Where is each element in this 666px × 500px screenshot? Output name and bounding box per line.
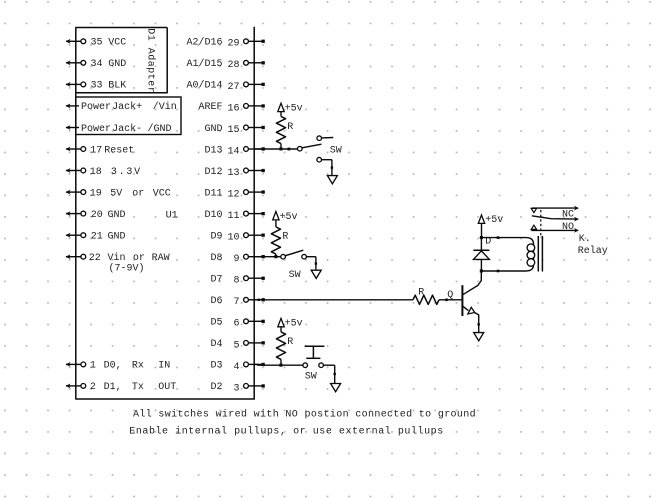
svg-text:A2/D16: A2/D16	[186, 37, 222, 49]
wire D6 pin to resistor R4	[254, 299, 413, 301]
pin 19	[66, 188, 171, 199]
svg-text:21: 21	[91, 232, 103, 243]
svg-text:SW: SW	[305, 371, 317, 382]
svg-text:20: 20	[91, 210, 103, 221]
Relay label	[578, 245, 608, 257]
relay contact NO terminal	[531, 228, 579, 233]
+5v supply at R3	[278, 318, 303, 329]
pin 33	[66, 81, 127, 92]
transistor Q base bar	[461, 285, 463, 316]
junction node diode top/coil top	[480, 236, 483, 239]
svg-text:or: or	[133, 253, 145, 264]
pin 4 (D3 4)	[210, 361, 264, 373]
pin Power Jack+ /Vin	[66, 101, 177, 113]
svg-text:29: 29	[227, 39, 239, 50]
svg-text:D10: D10	[204, 210, 222, 221]
Power Jack box	[76, 97, 181, 135]
pin Power Jack-/GND	[66, 123, 172, 135]
D1 Adapter header box	[76, 28, 167, 93]
svg-text:D2: D2	[210, 382, 222, 393]
svg-text:+5v: +5v	[285, 319, 303, 330]
svg-text:NC: NC	[562, 209, 574, 220]
switch SW1 common pole	[298, 144, 322, 151]
junction node collector/diode/coil bottom	[480, 269, 483, 272]
svg-text:27: 27	[227, 82, 239, 93]
svg-text:A1/D15: A1/D15	[186, 58, 222, 70]
switch SW1 NC contact to ground wire	[317, 157, 333, 175]
pin 12 (D11 12)	[204, 188, 264, 200]
svg-text:16: 16	[227, 103, 239, 114]
svg-text:Power: Power	[81, 124, 111, 135]
svg-text:2: 2	[90, 382, 96, 393]
svg-text:Rx: Rx	[132, 361, 144, 372]
junction node R3/D3 wire	[279, 364, 282, 367]
wire SW3 to ground	[323, 365, 336, 383]
pin 2	[66, 382, 177, 393]
ground below SW1	[327, 176, 337, 184]
svg-text:5: 5	[233, 340, 239, 351]
pin 1	[66, 361, 171, 372]
svg-text:Jack-: Jack-	[112, 123, 142, 135]
resistor R1	[276, 112, 285, 149]
wire D3 pin to switch SW3	[254, 363, 303, 366]
svg-text:3: 3	[233, 383, 239, 394]
pin 34	[66, 59, 127, 70]
svg-text:Vin: Vin	[108, 252, 126, 264]
pin 8 (D7 8)	[210, 275, 264, 287]
svg-text:Power: Power	[81, 102, 111, 113]
svg-text:D4: D4	[210, 339, 222, 350]
svg-text:6: 6	[233, 319, 239, 330]
switch SW1 NO contact	[317, 136, 333, 141]
pushbutton SW3 actuator	[305, 346, 325, 358]
NO label	[562, 222, 574, 233]
IC U1 chip body outline	[76, 27, 254, 399]
ground below Q emitter	[474, 333, 484, 341]
pin 13 (D12 13)	[204, 167, 264, 179]
wire D8 pin to switch SW2	[254, 256, 281, 258]
pin 18	[66, 167, 142, 178]
svg-text:VCC: VCC	[153, 188, 171, 199]
relay armature pivot	[531, 208, 536, 212]
svg-text:4: 4	[233, 362, 239, 373]
svg-text:GND: GND	[108, 232, 126, 243]
svg-text:Q: Q	[447, 290, 453, 301]
svg-text:17: 17	[90, 145, 102, 156]
svg-text:K.: K.	[579, 234, 591, 245]
transistor Q emitter	[463, 306, 480, 332]
svg-text:10: 10	[227, 233, 239, 244]
svg-text:35: 35	[91, 38, 103, 49]
svg-text:D11: D11	[204, 188, 222, 199]
svg-text:8: 8	[233, 276, 239, 287]
svg-text:GND: GND	[108, 59, 126, 70]
svg-text:12: 12	[227, 190, 239, 201]
svg-text:D0,: D0,	[104, 361, 122, 372]
resistor R2	[271, 220, 280, 257]
R4 value label	[418, 288, 424, 299]
svg-text:18: 18	[90, 167, 102, 178]
relay armature (common)	[532, 216, 579, 222]
svg-text:(7-9V): (7-9V)	[109, 263, 145, 275]
pin 28 (A1/D15 28)	[186, 58, 264, 71]
wire R4 to transistor base	[439, 299, 462, 302]
pin 11 (D10 11)	[204, 210, 264, 222]
svg-text:NO: NO	[562, 222, 574, 233]
U1 reference designator	[166, 211, 178, 222]
R2 value label	[282, 232, 288, 243]
pin 3 (D2 3)	[210, 382, 264, 394]
D1 Adapter vertical title	[145, 28, 157, 93]
Q reference label	[447, 290, 453, 301]
svg-text:Relay: Relay	[578, 245, 608, 257]
svg-text:19: 19	[90, 188, 102, 199]
pin 35	[66, 38, 127, 49]
pin 27 (A0/D14 27)	[186, 80, 264, 93]
svg-text:D12: D12	[204, 167, 222, 178]
svg-text:5V: 5V	[110, 188, 122, 199]
svg-text:R: R	[282, 232, 288, 243]
svg-text:RAW: RAW	[152, 253, 170, 264]
svg-text:GND: GND	[204, 124, 222, 135]
SW2 label	[289, 270, 301, 281]
svg-text:D13: D13	[204, 145, 222, 156]
svg-text:D9: D9	[210, 232, 222, 243]
svg-text:1: 1	[90, 361, 96, 372]
diode D	[473, 238, 489, 271]
resistor R3	[276, 327, 285, 365]
svg-text:IN: IN	[158, 361, 170, 372]
svg-text:28: 28	[227, 60, 239, 71]
NC label	[562, 209, 574, 220]
svg-text:SW: SW	[330, 146, 342, 157]
svg-text:D1,: D1,	[104, 382, 122, 393]
pushbutton SW3 contacts	[303, 363, 324, 368]
pin 5 (D4 5)	[210, 339, 264, 351]
svg-text:Tx: Tx	[132, 382, 144, 393]
svg-text:All switches wired with NO pos: All switches wired with NO postion conne…	[133, 409, 476, 421]
pin 10 (D9 10)	[210, 232, 264, 244]
svg-text:R: R	[287, 337, 293, 348]
pin 22	[66, 252, 170, 264]
R1 value label	[287, 122, 293, 133]
svg-text:9: 9	[233, 254, 239, 265]
svg-text:D7: D7	[210, 275, 222, 286]
+5v supply at relay	[478, 215, 503, 238]
transistor Q collector	[463, 271, 482, 295]
junction node R1/D13 wire	[279, 147, 282, 150]
ground below SW3	[331, 384, 341, 392]
pin 21	[66, 232, 126, 243]
relay NO fixed contact	[531, 225, 536, 229]
svg-text:U1: U1	[166, 211, 178, 222]
svg-text:13: 13	[227, 168, 239, 179]
relay mechanical link (dashed)	[540, 210, 542, 238]
svg-text:D8: D8	[210, 253, 222, 264]
svg-text:/Vin: /Vin	[153, 101, 177, 113]
svg-text:BLK: BLK	[108, 81, 126, 92]
ground below SW2	[311, 270, 321, 278]
relay K core bars	[538, 236, 542, 272]
+5v supply at R2	[273, 212, 298, 223]
pin 16 (AREF 16)	[198, 102, 264, 114]
wire SW2 to ground	[306, 257, 317, 271]
svg-text:D1 Adapter: D1 Adapter	[145, 28, 157, 93]
svg-text:Jack+: Jack+	[112, 101, 142, 113]
svg-text:R: R	[418, 288, 424, 299]
svg-text:AREF: AREF	[198, 102, 222, 113]
svg-text:33: 33	[91, 81, 103, 92]
svg-text:+5v: +5v	[285, 103, 303, 114]
switch SW2 pole and throw	[281, 250, 307, 259]
svg-text:22: 22	[89, 253, 101, 264]
svg-text:7: 7	[233, 297, 239, 308]
wire D13 pin to switch SW1	[254, 148, 297, 151]
svg-text:/GND: /GND	[148, 123, 172, 135]
pin 15 (GND 15)	[204, 124, 264, 136]
wire coil bottom	[481, 270, 526, 273]
R3 value label	[287, 337, 293, 348]
+5v supply at R1	[278, 103, 303, 114]
pin 7 (D6 7)	[210, 296, 264, 308]
D value label	[485, 236, 491, 247]
svg-text:3.3V: 3.3V	[111, 167, 142, 178]
relay K coil	[526, 238, 535, 271]
pin 22 second line (7-9V)	[109, 263, 145, 275]
svg-text:D3: D3	[210, 361, 222, 372]
svg-text:VCC: VCC	[108, 38, 126, 49]
svg-text:R: R	[287, 122, 293, 133]
pin 6 (D5 6)	[210, 318, 264, 330]
svg-text:34: 34	[91, 59, 103, 70]
wire coil top	[481, 236, 526, 239]
pin 17	[66, 145, 135, 156]
svg-text:GND: GND	[108, 210, 126, 221]
svg-text:Enable internal pullups, or us: Enable internal pullups, or use external…	[129, 426, 443, 438]
svg-text:11: 11	[227, 211, 239, 222]
svg-text:D5: D5	[210, 318, 222, 329]
junction node R2/D8 wire	[274, 255, 277, 258]
K reference label	[579, 234, 591, 245]
svg-text:SW: SW	[289, 270, 301, 281]
svg-text:or: or	[132, 188, 144, 199]
SW1 label	[330, 146, 342, 157]
svg-text:15: 15	[227, 125, 239, 136]
SW3 label	[305, 371, 317, 382]
svg-text:+5v: +5v	[280, 212, 298, 223]
relay contact NC terminal	[532, 206, 579, 211]
pin 20	[66, 210, 126, 221]
resistor R4	[413, 295, 439, 304]
svg-text:OUT: OUT	[158, 382, 176, 393]
annotation line 1	[133, 409, 476, 421]
pin 29 (A2/D16 29)	[186, 37, 264, 50]
annotation line 2	[129, 426, 443, 438]
pin 9 (D8 9)	[210, 253, 264, 265]
svg-text:+5v: +5v	[485, 215, 503, 226]
svg-text:Reset: Reset	[104, 145, 134, 156]
svg-text:14: 14	[227, 146, 239, 157]
svg-text:A0/D14: A0/D14	[186, 80, 222, 92]
svg-text:D6: D6	[210, 296, 222, 307]
pin 14 (D13 14)	[204, 145, 264, 157]
